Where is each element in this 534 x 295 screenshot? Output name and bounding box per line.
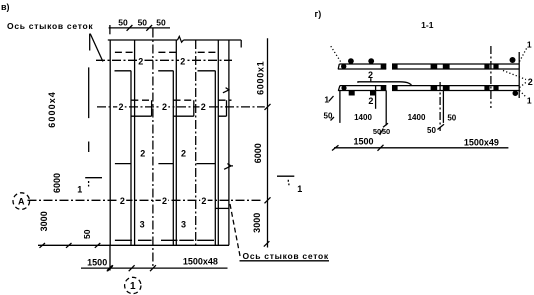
bottom inner segments xyxy=(115,239,214,241)
extension line left end xyxy=(339,91,341,123)
left dim chain line xyxy=(88,67,90,152)
label masks xyxy=(137,56,145,66)
top mesh bar right segment xyxy=(392,64,519,69)
svg-text:1: 1 xyxy=(527,95,532,105)
tick slash bottom 2 xyxy=(150,265,156,271)
svg-text:6000х4: 6000х4 xyxy=(47,91,57,128)
pair line 3b xyxy=(217,40,219,245)
svg-text:2: 2 xyxy=(180,57,185,67)
plan top edge with break xyxy=(108,39,241,41)
lower mesh bar left segment xyxy=(338,86,386,91)
right border of section xyxy=(518,52,520,98)
dotted leader to label 2 lower xyxy=(520,83,526,88)
svg-text:3000: 3000 xyxy=(39,211,49,231)
dotted leader to label 1 top xyxy=(520,48,528,62)
break zigzag xyxy=(178,36,184,42)
svg-text:2: 2 xyxy=(528,77,533,87)
slash tick on ext 1400 xyxy=(383,123,388,127)
mesh top corners row1 xyxy=(115,70,216,72)
mesh bottom edges row2 xyxy=(131,115,226,117)
right col step xyxy=(215,207,229,209)
svg-text:2: 2 xyxy=(120,196,125,206)
svg-text:50: 50 xyxy=(138,18,148,28)
right edge stub xyxy=(240,40,242,48)
svg-text:2: 2 xyxy=(201,196,206,206)
svg-text:2: 2 xyxy=(181,149,186,159)
pair line 3a xyxy=(214,71,216,246)
joint axis vertical 2 xyxy=(195,40,197,247)
svg-text:50: 50 xyxy=(447,113,456,122)
lap pair blocks top bar xyxy=(431,64,438,69)
dotted leader to label 2 xyxy=(503,71,526,80)
section mark 1 left line xyxy=(85,177,102,179)
section mark 1 right line xyxy=(277,175,294,177)
joint axis row1 xyxy=(96,59,232,61)
svg-text:3000: 3000 xyxy=(252,213,262,233)
section mark colon dots xyxy=(88,181,90,187)
svg-text:50: 50 xyxy=(118,18,128,28)
cross bars below lower mesh xyxy=(349,91,355,96)
arrow mark upper on right vertical xyxy=(223,88,229,93)
lower mesh bar right segment xyxy=(392,86,519,91)
svg-text:1: 1 xyxy=(527,39,532,49)
joint axis vertical in section xyxy=(490,46,492,108)
tick slash 1 xyxy=(127,25,133,31)
mid tick slash xyxy=(378,145,384,151)
svg-text:1-1: 1-1 xyxy=(421,20,434,30)
joint axis vertical 1 xyxy=(152,29,154,269)
pair line 1b xyxy=(134,40,136,245)
section mark colon dots right xyxy=(287,180,290,185)
tick cross at left xyxy=(109,25,111,34)
svg-text:2: 2 xyxy=(368,96,373,106)
chain slashes xyxy=(264,104,271,247)
dashed leader to bottom note xyxy=(230,204,240,257)
svg-text:50: 50 xyxy=(427,126,436,135)
plan left edge xyxy=(109,40,111,245)
axis circle 1 xyxy=(125,277,141,293)
pair line 2a xyxy=(172,71,174,246)
joint end blocks top bar xyxy=(381,64,387,70)
svg-text:2: 2 xyxy=(162,102,167,112)
left arrow slash xyxy=(332,145,339,150)
left end bar dot lower mesh xyxy=(341,85,346,90)
right dim chain line xyxy=(267,38,269,247)
PLAN VIEW (в) xyxy=(1,2,329,294)
tick slash bottom mid xyxy=(129,265,135,271)
tick slash bottom 1 xyxy=(107,265,113,271)
left end bar dot top mesh xyxy=(341,64,346,69)
extension line right of axis xyxy=(442,91,444,123)
svg-text:6000: 6000 xyxy=(52,173,62,193)
cross bars on top of upper mesh xyxy=(348,58,354,64)
svg-text:А: А xyxy=(18,197,25,207)
svg-text:6000х1: 6000х1 xyxy=(255,61,265,95)
svg-text:1400: 1400 xyxy=(408,113,426,122)
extension line 1400 boundary xyxy=(385,91,387,126)
axis dash-dot at 1400 right xyxy=(439,82,441,131)
svg-text:1500: 1500 xyxy=(353,137,373,147)
dotted leader to label 1 bottom xyxy=(520,91,527,98)
plan bottom edge xyxy=(38,244,229,246)
svg-text:2: 2 xyxy=(140,149,145,159)
bottom dim line xyxy=(81,267,228,269)
small rect side verticals xyxy=(152,100,227,116)
tick slash 2 xyxy=(146,25,152,31)
svg-text:6000: 6000 xyxy=(253,143,263,163)
leader from note xyxy=(90,34,103,62)
svg-text:Ось стыков сеток: Ось стыков сеток xyxy=(243,251,329,261)
lap pair blocks lower bar xyxy=(431,85,438,90)
pair line 1a xyxy=(130,71,132,246)
svg-text:50: 50 xyxy=(382,127,390,136)
svg-text:3: 3 xyxy=(181,220,186,230)
arrow mark lower on right vertical xyxy=(224,164,233,170)
mid steps xyxy=(115,163,215,165)
svg-text:1500: 1500 xyxy=(87,257,107,267)
axis circle A xyxy=(13,193,30,210)
right inner vertical xyxy=(228,40,230,245)
svg-text:1500х48: 1500х48 xyxy=(183,257,218,267)
svg-text:50: 50 xyxy=(156,18,166,28)
short vertical by note xyxy=(89,34,91,51)
hidden dashes row2 xyxy=(131,99,231,101)
svg-text:2: 2 xyxy=(138,57,143,67)
axis A line xyxy=(28,199,263,201)
bottom dimension line of section xyxy=(334,147,508,149)
pair line 2b xyxy=(175,40,177,245)
svg-text:1: 1 xyxy=(130,281,136,292)
joint end blocks lower bar xyxy=(381,85,387,91)
svg-text:2: 2 xyxy=(118,102,123,112)
ext line left xyxy=(109,245,111,270)
ticks on bottom edge xyxy=(40,243,101,248)
joint axis row2 xyxy=(97,106,265,108)
top dimension line xyxy=(109,27,170,29)
svg-text:2: 2 xyxy=(201,102,206,112)
SECTION VIEW (г) xyxy=(315,9,533,151)
svg-text:1: 1 xyxy=(77,185,82,195)
svg-text:Ось стыков сеток: Ось стыков сеток xyxy=(7,21,93,31)
separator line right of label 2 xyxy=(375,86,377,109)
top mesh bar left segment xyxy=(338,64,386,69)
svg-text:2: 2 xyxy=(162,196,167,206)
dotted leader top-left xyxy=(331,46,342,63)
svg-text:50: 50 xyxy=(82,229,92,239)
svg-text:1: 1 xyxy=(324,95,329,105)
tick from label 2 to leader xyxy=(370,78,372,81)
leader of label 2 xyxy=(358,82,411,85)
svg-text:1400: 1400 xyxy=(354,113,372,122)
slash tick on axis ext xyxy=(438,124,445,129)
svg-text:в): в) xyxy=(1,2,10,12)
svg-text:г): г) xyxy=(315,9,322,19)
underline of bottom note xyxy=(240,260,330,262)
svg-text:1: 1 xyxy=(297,184,302,194)
svg-text:1500х49: 1500х49 xyxy=(464,137,499,147)
hidden dashes row1 xyxy=(115,51,215,53)
svg-text:3: 3 xyxy=(140,220,145,230)
